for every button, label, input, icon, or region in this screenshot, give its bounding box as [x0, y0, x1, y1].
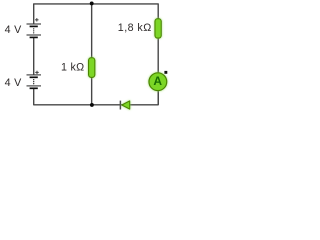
- battery V1 plate long 2: [27, 34, 42, 36]
- battery V1 plate long 1: [27, 23, 42, 25]
- svg-text:4 V: 4 V: [5, 77, 23, 89]
- wire bottom loop (left corner, bottom run, right corner): [34, 88, 159, 105]
- wire top loop (left corner, top run, right corner): [34, 4, 159, 24]
- battery V1 cell dots: [33, 28, 34, 29]
- junction node bottom: [90, 103, 94, 107]
- resistor R2 1.8 kOhm body: [155, 19, 161, 38]
- battery V1 plate short 1: [30, 25, 38, 27]
- battery V1 plus sign: [35, 18, 38, 21]
- battery V1 plate short 2: [30, 36, 38, 38]
- battery V2 plate short 2: [30, 87, 38, 89]
- ammeter handle square dot: [164, 71, 167, 74]
- svg-text:1 kΩ: 1 kΩ: [61, 62, 84, 74]
- diode D1 triangle: [122, 101, 130, 109]
- battery V2 plate short 1: [30, 76, 38, 78]
- wire middle branch: [91, 4, 93, 105]
- svg-text:4 V: 4 V: [5, 24, 23, 36]
- battery V2 plate long 1: [27, 74, 42, 76]
- svg-text:A: A: [153, 74, 162, 88]
- diode D1 cathode bar: [119, 101, 121, 110]
- battery V2 plus sign: [35, 71, 38, 74]
- resistor R1 1 kOhm body: [89, 58, 95, 78]
- wire right branch: [157, 19, 159, 105]
- battery V2 plate long 2: [27, 85, 42, 87]
- junction node top: [90, 1, 94, 5]
- ammeter A1 circle: [149, 73, 167, 91]
- svg-text:1,8 kΩ: 1,8 kΩ: [118, 22, 152, 34]
- battery V2 cell dots: [33, 79, 34, 80]
- wire left segment between batteries: [33, 37, 35, 75]
